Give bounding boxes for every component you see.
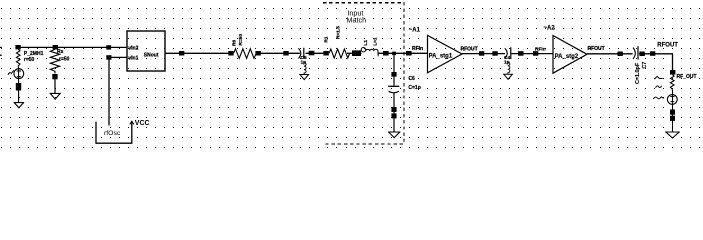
VCC arrow [130,121,134,124]
node J10 [323,51,328,56]
svg-text:VCC: VCC [135,120,150,127]
capacitor C4 flat plate [510,47,512,59]
node J3 top pin of mixer box [106,45,111,49]
ground G3 [299,75,309,80]
node J6 [228,51,233,56]
wire [306,52,324,54]
wire C6 to ground [393,93,395,132]
port P1 ac tilde [8,70,14,75]
ground G6 [665,132,680,138]
node junction J1 [15,45,20,49]
dashed box input match [323,3,404,144]
port P1 plus mark [17,70,21,72]
op-amp A1 triangle [428,35,463,72]
resistor R50 zigzag [50,49,59,73]
port P1 pin square [16,83,21,91]
capacitor C1 flat plate [303,48,305,59]
rfOsc U shape [96,122,132,144]
svg-text:PA_stg2: PA_stg2 [555,54,579,60]
port P1 squiggle lead [16,49,20,67]
term ac tilde 2 [656,86,662,88]
shunt inductor L under C4 [508,62,510,73]
node J5 [179,51,184,56]
svg-text:R=1.5: R=1.5 [336,26,342,39]
wire amp2 out [587,53,633,55]
ground G1 [14,103,25,108]
svg-text:SNout: SNout [144,53,159,59]
ground G2 [50,93,61,99]
svg-text:~A1: ~A1 [409,27,421,33]
port P1 minus mark [17,76,21,78]
svg-text:L=1: L=1 [373,37,379,46]
svg-text:RFIn: RFIn [412,46,423,52]
capacitor C6 top plate [388,85,399,87]
svg-text:R=50: R=50 [238,34,244,46]
term pin square top [670,70,675,75]
wire shunt C6 down [393,55,395,85]
svg-text:R6: R6 [231,40,237,46]
node J7 [255,51,260,56]
svg-text:RFOUT: RFOUT [461,46,478,52]
svg-text:PA_stg1: PA_stg1 [429,54,453,60]
port P1 source circle [14,69,24,79]
node J16 [492,51,497,56]
svg-text:r=50: r=50 [24,57,35,63]
node J20 [640,52,645,57]
node J11 wide [352,50,361,56]
term plus mark [670,95,674,97]
term source circle [667,95,677,105]
svg-text:Match: Match [347,15,367,24]
node J2 [53,45,58,49]
wire P1 ground stem [18,68,20,103]
wire [379,52,428,54]
node J15 [479,51,484,56]
svg-text:Rs: Rs [57,49,64,55]
term minus mark [671,101,675,103]
C6 pin square lower1 [391,107,396,112]
wire box output [165,52,234,54]
capacitor C7 flat plate [637,46,639,59]
wire [512,53,554,55]
wire term [672,90,674,132]
wire amp1 out [462,53,505,55]
ground G4 [388,132,400,138]
svg-text:RFOUT: RFOUT [657,43,678,49]
wire R50 ground stem [54,79,56,93]
node J12 [383,51,389,56]
node J17 [518,51,524,56]
node J9 [309,51,315,56]
node J8 [283,51,288,56]
shunt C6 pin square [391,72,396,77]
term ac tilde 1 [655,76,663,79]
svg-text:r=50: r=50 [59,57,70,63]
term ac tilde 3 [653,97,663,99]
inductor L1 coil [361,48,379,57]
svg-text:L1: L1 [363,40,369,46]
wire stub left edge top [0,46,2,48]
wire [639,54,673,70]
svg-text:~A2: ~A2 [544,25,556,31]
node J4 lower pin of mixer box [106,55,111,60]
capacitor C7 arc plate [633,48,635,59]
wire main top [18,46,127,48]
svg-text:C7: C7 [642,62,648,69]
svg-text:RFIn: RFIn [535,46,546,52]
svg-text:C=1.0pF: C=1.0pF [635,62,641,84]
node J14 [406,51,412,56]
svg-text:rfOsc: rfOsc [104,130,121,137]
resistor R3 in match [329,49,350,58]
wire down to rfOsc [108,57,110,125]
wire stub left edge lower [0,54,2,56]
op-amp A2 triangle [553,36,587,74]
node J18 [533,51,538,56]
svg-text:C6: C6 [408,76,415,82]
term pin square mid1 [670,110,675,115]
wire [347,52,362,54]
capacitor C6 bottom plate [389,91,399,93]
node J21 [650,51,655,56]
shunt inductor L under C1 [304,63,306,74]
node J13 dot [392,52,396,56]
C6 pin square lower2 [391,113,396,118]
capacitor C1 arc plate [298,48,300,58]
wire lower to box [107,56,128,58]
resistor R2 [234,49,256,59]
capacitor C4 arc plate [505,48,507,58]
resistor R50 pin square [52,74,57,79]
svg-text:RF_OUT: RF_OUT [677,74,697,80]
svg-text:R1: R1 [324,36,330,42]
ground G5 [503,74,513,79]
wire [256,52,300,54]
svg-text:RFOUT: RFOUT [588,46,605,52]
svg-text:vIn2: vIn2 [128,45,138,51]
node J19 [618,52,623,57]
term resistor zigzag [670,75,674,90]
svg-text:C=1p: C=1p [408,85,420,91]
svg-text:vIn1: vIn1 [128,55,138,61]
mixer box U1 [127,31,165,71]
term pin square mid2 [670,116,675,121]
